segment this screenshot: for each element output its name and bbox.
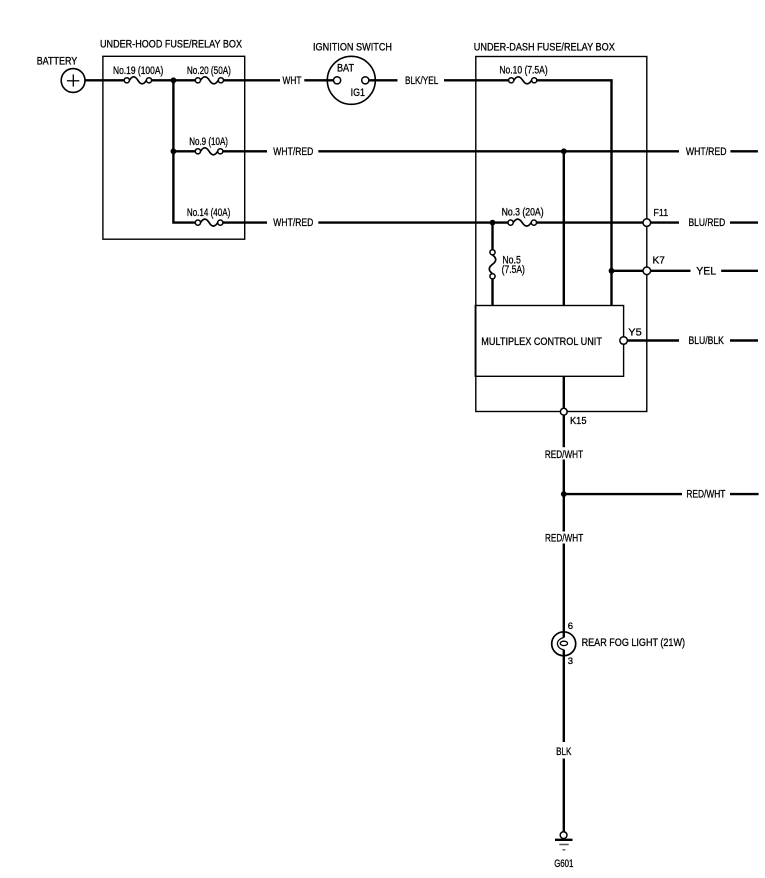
junction dot RED/WHT row	[561, 491, 567, 497]
wire BLK to ground	[563, 759, 565, 832]
wire junction to fuse No.9	[173, 150, 195, 152]
multiplex control unit box	[475, 306, 623, 377]
wire battery to fuse No.19	[85, 79, 124, 81]
svg-text:(7.5A): (7.5A)	[502, 264, 525, 276]
wire under-hood junction column	[173, 80, 195, 222]
svg-text:BAT: BAT	[337, 63, 354, 75]
wire YEL right end	[721, 270, 758, 272]
under-hood fuse/relay box	[103, 56, 245, 239]
wire Y5 to BLU/BLK label	[627, 339, 679, 341]
svg-text:MULTIPLEX CONTROL UNIT: MULTIPLEX CONTROL UNIT	[481, 336, 602, 348]
svg-text:WHT: WHT	[283, 75, 302, 87]
fuse No.19	[124, 77, 151, 84]
junction dot No.3 row	[490, 220, 496, 226]
wire fuse No.5 down to MCU	[491, 279, 493, 306]
svg-text:RED/WHT: RED/WHT	[545, 449, 583, 461]
svg-text:WHT/RED: WHT/RED	[273, 146, 313, 158]
wire K7 junction to connector	[612, 270, 644, 272]
wire junction down to fuse No.5	[491, 223, 493, 250]
junction dot battery row	[171, 77, 177, 83]
svg-text:Y5: Y5	[628, 326, 642, 338]
junction dot K7 row	[609, 268, 615, 274]
svg-text:G601: G601	[554, 858, 573, 870]
svg-text:BATTERY: BATTERY	[37, 56, 78, 68]
svg-text:No.3 (20A): No.3 (20A)	[502, 206, 544, 218]
wire RED/WHT right end	[730, 493, 759, 495]
svg-text:No.14 (40A): No.14 (40A)	[187, 207, 230, 219]
svg-text:No.9 (10A): No.9 (10A)	[189, 136, 228, 148]
svg-text:BLU/RED: BLU/RED	[689, 217, 726, 229]
connector Y5	[620, 337, 628, 345]
wire down segment 2	[563, 460, 565, 532]
svg-text:BLK: BLK	[556, 746, 572, 758]
fuse No.9	[195, 148, 223, 155]
svg-text:BLU/BLK: BLU/BLK	[689, 335, 725, 347]
ground G601	[555, 832, 573, 850]
fuse No.20	[195, 77, 223, 84]
fuse No.3	[508, 219, 537, 226]
svg-text:3: 3	[568, 656, 573, 667]
svg-text:YEL: YEL	[696, 265, 716, 277]
wire RED/WHT branch right	[564, 493, 682, 495]
svg-text:UNDER-DASH FUSE/RELAY BOX: UNDER-DASH FUSE/RELAY BOX	[474, 42, 616, 54]
svg-text:No.19 (100A): No.19 (100A)	[113, 65, 163, 77]
svg-text:F11: F11	[653, 207, 668, 219]
wire fuse No.20 out of box	[224, 79, 281, 81]
wire fuse No.19 to fuse No.20	[152, 79, 196, 81]
wire down segment 3 to bulb	[563, 544, 565, 638]
svg-text:RED/WHT: RED/WHT	[545, 532, 583, 544]
svg-text:IGNITION SWITCH: IGNITION SWITCH	[313, 41, 392, 53]
fuse No.10	[509, 77, 537, 84]
wire WHT to ignition switch	[304, 79, 333, 81]
wire WHT/RED row right end	[730, 150, 758, 152]
wire BLU/BLK right end	[730, 339, 758, 341]
fuse No.14	[195, 219, 223, 226]
svg-text:IG1: IG1	[351, 87, 365, 99]
wire ignition switch IG1 out	[369, 79, 398, 81]
wire MCU bottom to K15	[563, 376, 565, 408]
fuse No.5	[489, 250, 495, 279]
wire No.14 fuse to WHT/RED label	[223, 221, 267, 223]
svg-text:BLK/YEL: BLK/YEL	[405, 75, 438, 87]
connector K15	[560, 408, 567, 415]
wire main column WHT/RED down to MCU	[563, 151, 565, 305]
wire BLK/YEL to fuse No.10	[444, 79, 509, 81]
svg-text:RED/WHT: RED/WHT	[686, 489, 725, 501]
wire YEL row right of box	[651, 270, 691, 272]
svg-text:K7: K7	[653, 255, 666, 267]
junction dot No.9 row	[171, 148, 177, 154]
svg-text:K15: K15	[570, 415, 587, 427]
rear fog light bulb	[552, 632, 576, 656]
battery positive terminal	[61, 69, 85, 93]
svg-text:No.20 (50A): No.20 (50A)	[187, 65, 231, 77]
ignition switch	[327, 56, 375, 104]
svg-text:No.10 (7.5A): No.10 (7.5A)	[499, 64, 547, 76]
wire K15 down segment 1	[563, 415, 565, 447]
wire bulb down to BLK label	[563, 650, 565, 742]
wire fuse No.3 to connector F11	[537, 221, 644, 223]
wire WHT/RED row right of box	[651, 221, 680, 223]
wire fuse No.10 down to multiplex control unit	[537, 80, 612, 305]
junction dot WHT/RED row	[561, 148, 567, 154]
connector K7	[643, 267, 651, 275]
wire WHT/RED row 2 to fuse No.3	[318, 221, 508, 223]
svg-text:UNDER-HOOD FUSE/RELAY BOX: UNDER-HOOD FUSE/RELAY BOX	[100, 39, 243, 51]
wire No.9 fuse to WHT/RED label	[223, 150, 267, 152]
svg-text:6: 6	[568, 621, 573, 632]
wire BLU/RED right end	[730, 221, 758, 223]
under-dash fuse/relay box	[476, 57, 647, 412]
svg-text:WHT/RED: WHT/RED	[686, 146, 727, 158]
connector F11	[643, 219, 651, 227]
wire WHT/RED row across to under-dash box	[318, 150, 679, 152]
svg-text:WHT/RED: WHT/RED	[273, 217, 313, 229]
svg-text:REAR FOG LIGHT (21W): REAR FOG LIGHT (21W)	[582, 637, 685, 649]
